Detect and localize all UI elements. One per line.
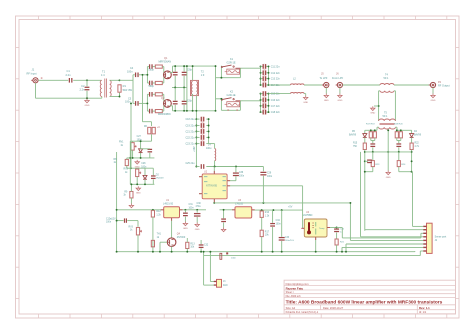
label P1 bbox=[27, 68, 43, 79]
svg-text:1:9: 1:9 bbox=[201, 74, 205, 77]
wire C35 stub bbox=[336, 227, 338, 230]
diode D1 bbox=[139, 149, 143, 153]
label R17 R18 bbox=[366, 124, 375, 126]
wire T4 to RF out bbox=[394, 84, 430, 86]
ground RF out bbox=[431, 94, 436, 102]
junction u3 rail b bbox=[281, 209, 283, 211]
wire ToLPF gnd stub bbox=[325, 88, 327, 94]
label R15 bbox=[353, 143, 358, 148]
junction C13 right bbox=[268, 78, 270, 80]
svg-text:From LPF: From LPF bbox=[332, 77, 344, 80]
junction C31 top bbox=[184, 209, 186, 211]
junction cell1 a bbox=[132, 157, 134, 159]
label C13 bbox=[271, 78, 281, 81]
label C1 bbox=[66, 69, 72, 77]
wire fb mid rail bbox=[172, 87, 187, 89]
label R24 bbox=[401, 164, 406, 166]
wire to C2 bbox=[86, 80, 88, 86]
wire L4 down bbox=[214, 161, 216, 167]
junction fb mid a bbox=[174, 87, 176, 89]
capacitor C13 bbox=[263, 76, 267, 81]
wire sense pin5 bbox=[350, 203, 423, 241]
svg-text:GND: GND bbox=[183, 228, 188, 230]
transformer T1 secondary coil bbox=[110, 80, 112, 96]
junction fb top a bbox=[174, 65, 176, 67]
wire to C4 bbox=[133, 74, 135, 76]
junction U4 out bbox=[336, 227, 338, 229]
wire C18 stub bbox=[261, 111, 269, 113]
capacitor C25 bbox=[201, 164, 205, 169]
svg-text:100n: 100n bbox=[189, 207, 195, 209]
label To LPF bbox=[320, 72, 328, 80]
capacitor C8 bbox=[149, 92, 153, 97]
connector P1 RF Input bbox=[31, 78, 38, 83]
junction K2 left bbox=[220, 98, 222, 100]
label Q2 bbox=[158, 97, 171, 116]
capacitor C37 bbox=[226, 252, 228, 254]
capacitor C18 bbox=[263, 110, 267, 115]
junction 12v u1 bbox=[116, 209, 118, 211]
svg-text:R15: R15 bbox=[353, 143, 358, 145]
thermometer icon U4 bbox=[307, 222, 314, 234]
wire R16-R17 bbox=[261, 217, 263, 230]
ground C31 bbox=[183, 222, 188, 230]
label K1 bbox=[227, 58, 236, 64]
junction C30 top bbox=[196, 209, 198, 211]
label C12 bbox=[271, 72, 281, 75]
svg-text:100n: 100n bbox=[127, 70, 133, 73]
junction fan1 bbox=[209, 251, 211, 253]
label C12a bbox=[106, 218, 112, 223]
capacitor C22 bbox=[201, 135, 205, 140]
capacitor C35 bbox=[334, 228, 339, 232]
wire C18b stub bbox=[196, 118, 208, 120]
title block sheet bbox=[286, 291, 295, 294]
wire sense pin7 bbox=[342, 247, 423, 251]
junction fb top b bbox=[183, 65, 185, 67]
svg-text:L4931-50: L4931-50 bbox=[163, 203, 174, 206]
diode D2 bbox=[143, 175, 147, 179]
junction bottom rail bbox=[272, 251, 274, 253]
svg-text:2.2n: 2.2n bbox=[66, 73, 72, 77]
label R1 bbox=[123, 84, 133, 92]
svg-text:C22 22u: C22 22u bbox=[185, 136, 195, 139]
junction R19 top bbox=[396, 129, 398, 131]
wire U3 out rail bbox=[252, 209, 303, 211]
wire sense pin8 long bbox=[204, 251, 424, 256]
label Q3 bbox=[177, 232, 186, 238]
svg-text:Id: 1/1: Id: 1/1 bbox=[419, 310, 427, 314]
svg-text:RV2: RV2 bbox=[124, 169, 129, 171]
label R19 R20 bbox=[394, 124, 403, 126]
wire gnd tap bbox=[374, 105, 379, 107]
junction U2 gnd bbox=[213, 202, 215, 204]
label C5 bbox=[125, 97, 132, 103]
wire drain2 rail bbox=[170, 106, 216, 111]
ground L3 bbox=[303, 96, 308, 104]
junction r9 top bbox=[130, 183, 132, 185]
svg-text:C36: C36 bbox=[239, 172, 244, 174]
wire C34a top bbox=[272, 210, 274, 223]
junction C25 left bbox=[195, 166, 197, 168]
title block box bbox=[284, 280, 455, 314]
junction bottom rail bbox=[336, 251, 338, 253]
junction K1 left bbox=[220, 77, 222, 79]
wire R24 top bbox=[398, 152, 400, 160]
diode D4 BAV99 bbox=[410, 134, 414, 138]
label R17b bbox=[265, 231, 270, 236]
junction C16 right bbox=[268, 99, 270, 101]
wire R8 bottom bbox=[126, 166, 128, 169]
capacitor C7 bbox=[149, 81, 153, 86]
resistor R15 bbox=[363, 143, 366, 150]
svg-text:R17 R18: R17 R18 bbox=[366, 124, 375, 126]
wire gate1 left rail bbox=[146, 67, 148, 83]
wire sense pin2 REF bbox=[365, 229, 423, 231]
wire J1 to C1 bbox=[38, 79, 68, 81]
svg-text:Title: A600 Broadband 600W lin: Title: A600 Broadband 600W linear amplif… bbox=[286, 300, 443, 306]
transformer T2 winding A bbox=[191, 82, 192, 95]
wire C33 top bbox=[281, 210, 283, 237]
wire R12 down bbox=[152, 217, 154, 252]
label C16 bbox=[271, 99, 281, 102]
label R22 bbox=[415, 143, 420, 148]
label RV3 bbox=[129, 226, 134, 231]
svg-text:100n: 100n bbox=[267, 176, 273, 178]
junction drain link bottom bbox=[186, 110, 188, 112]
wire R17R18 join bbox=[371, 138, 375, 141]
svg-text:R19 R20: R19 R20 bbox=[394, 124, 403, 126]
junction c25b bottom bbox=[398, 151, 400, 153]
wire R16 stub bbox=[261, 209, 263, 212]
capacitor C13a bbox=[173, 72, 178, 76]
wire gate2 top branch bbox=[147, 93, 149, 95]
svg-text:C16 22n: C16 22n bbox=[271, 99, 281, 102]
wire C8 to R4 bbox=[153, 93, 156, 95]
wire fb ladder1b bbox=[174, 76, 176, 88]
svg-text:MRF300AN: MRF300AN bbox=[159, 61, 172, 64]
label C34a bbox=[276, 220, 282, 225]
wire fan pin1 bbox=[210, 252, 215, 282]
junction d1 top bbox=[140, 140, 142, 142]
wire bias feed 1 bbox=[143, 75, 152, 126]
wire R17 top bbox=[370, 130, 372, 131]
wire C25b down bbox=[398, 147, 400, 152]
wire fb ladder1d bbox=[174, 105, 176, 111]
svg-text:RF Input: RF Input bbox=[27, 71, 37, 75]
svg-text:100n: 100n bbox=[106, 222, 112, 224]
connector J2 pins bbox=[423, 226, 426, 252]
capacitor C18c bbox=[151, 175, 156, 179]
wire ref join bottom bbox=[365, 171, 373, 173]
resistor R3 bbox=[155, 81, 162, 84]
svg-text:ATTINY85: ATTINY85 bbox=[206, 185, 218, 188]
label C32 bbox=[204, 244, 209, 246]
wire c17b bottom bbox=[149, 153, 151, 158]
svg-text:C31: C31 bbox=[189, 204, 194, 206]
wire gate2 low branch bbox=[147, 110, 149, 112]
label T2 bbox=[201, 71, 205, 77]
junction bias tap1 bbox=[142, 74, 144, 76]
junction bottom rail bbox=[281, 251, 283, 253]
svg-text:C29: C29 bbox=[267, 173, 272, 175]
wire rail end hook bbox=[414, 250, 416, 253]
svg-text:RV1: RV1 bbox=[119, 142, 124, 144]
label R23 bbox=[375, 164, 380, 166]
resistor R1 bbox=[118, 85, 121, 92]
transformer T2 box bbox=[191, 80, 199, 95]
wire +48V rail down bbox=[195, 96, 197, 167]
wire R13 bottom bbox=[186, 249, 188, 252]
resistor R16 bbox=[260, 211, 263, 217]
wire D4 to R22 bbox=[411, 138, 413, 143]
label U3 bbox=[235, 199, 244, 206]
wire T1 sec top bbox=[110, 79, 120, 81]
wire fb ladder1a bbox=[174, 66, 176, 72]
wire C12 stub bbox=[261, 72, 269, 74]
junction fb bot a bbox=[174, 110, 176, 112]
svg-text:100u: 100u bbox=[206, 147, 212, 150]
transformer T4 secondary bbox=[380, 91, 394, 93]
wire C33a stub bbox=[223, 210, 225, 219]
wire bank2 right rail bbox=[268, 94, 270, 113]
wire R18 top bbox=[374, 130, 376, 131]
title block size row bbox=[286, 306, 431, 310]
svg-text:C30: C30 bbox=[197, 203, 202, 205]
capacitor C26 bbox=[367, 159, 372, 163]
capacitor C17 bbox=[263, 104, 267, 109]
wire C11 stub bbox=[261, 65, 269, 67]
wire Q3 source down bbox=[171, 247, 173, 252]
label C30 bbox=[196, 203, 202, 208]
junction C11 left bbox=[260, 65, 262, 67]
svg-text:C19 22u: C19 22u bbox=[185, 125, 195, 128]
svg-text:220p: 220p bbox=[187, 70, 193, 72]
wire c18c top bbox=[152, 168, 154, 175]
capacitor C2 bbox=[85, 87, 90, 91]
capacitor C13b bbox=[182, 72, 187, 76]
wire relay K1 routing bbox=[221, 66, 243, 78]
U4 internal pin marks bbox=[314, 222, 317, 235]
svg-text:100n: 100n bbox=[276, 223, 282, 225]
wire RV1 stub bbox=[132, 141, 134, 142]
svg-text:470u: 470u bbox=[196, 206, 202, 208]
wire REF line down bbox=[364, 150, 366, 231]
svg-text:R16: R16 bbox=[265, 212, 270, 214]
wire U2 left pin2 bbox=[199, 193, 202, 195]
capacitor C11 bbox=[263, 64, 267, 69]
wire R24 bottom bbox=[398, 167, 400, 172]
wire gate1 right rail bbox=[163, 67, 165, 83]
wire bank2 left rail bbox=[260, 94, 262, 113]
title block url bbox=[286, 282, 310, 286]
junction ref bottom bbox=[364, 171, 366, 173]
inductor L2 bbox=[291, 84, 305, 85]
wire R8 top bbox=[126, 158, 128, 160]
wire C29 top bbox=[262, 167, 264, 172]
wire T4s right down bbox=[394, 91, 395, 121]
label C29 bbox=[267, 173, 273, 178]
ground T4 secondary bbox=[370, 106, 375, 114]
wire bias cell1 bottom bbox=[127, 157, 155, 159]
junction fwd2 bbox=[411, 160, 413, 162]
label T1 bbox=[101, 69, 106, 77]
svg-text:G2R-1E: G2R-1E bbox=[227, 94, 236, 97]
svg-text:Size: A4: Size: A4 bbox=[286, 306, 296, 310]
svg-text:Razvan Fatu: Razvan Fatu bbox=[286, 286, 304, 290]
wire U4 to sense3 bbox=[337, 228, 343, 238]
junction bottom rail bbox=[315, 251, 317, 253]
label 560p lower bbox=[149, 85, 155, 88]
connector J2 sense port bbox=[427, 223, 433, 253]
wire Q3 gate bbox=[160, 242, 167, 252]
junction center 152 bbox=[387, 151, 389, 153]
wire L3 to gnd bbox=[304, 94, 306, 96]
wire bank2 to L3 bbox=[269, 93, 291, 95]
wire C5 to gate2 node bbox=[139, 102, 148, 104]
junction supply tap bbox=[195, 110, 197, 112]
junction col48 right bbox=[208, 130, 210, 132]
junction C15 left bbox=[260, 93, 262, 95]
wire R8 to cell2 bbox=[127, 167, 131, 169]
junction u3 rail a bbox=[272, 209, 274, 211]
wire cell2 top bbox=[131, 168, 137, 169]
junction bottom rail bbox=[261, 251, 263, 253]
junction col48 C23 bbox=[195, 143, 197, 145]
wire bias feed 2 bbox=[130, 103, 132, 168]
wire fan pin2 bbox=[204, 252, 216, 285]
label R13 bbox=[190, 243, 195, 248]
junction bottom rail bbox=[171, 251, 173, 253]
capacitor C18b bbox=[201, 117, 205, 122]
resistor R22 bbox=[410, 143, 413, 150]
label R21 bbox=[340, 228, 345, 243]
svg-text:1N4148: 1N4148 bbox=[156, 178, 164, 180]
wire d1 bottom bbox=[140, 153, 142, 158]
IC pin stubs bbox=[161, 171, 330, 240]
svg-text:Date: 2018-10-27: Date: 2018-10-27 bbox=[323, 306, 344, 310]
wire gate split vertical bbox=[132, 75, 134, 104]
svg-text:R22: R22 bbox=[415, 143, 420, 145]
junction col48 C18b bbox=[195, 118, 197, 120]
resistor R20 bbox=[399, 132, 402, 138]
transformer T2 winding B bbox=[196, 82, 197, 95]
wire R9 top bbox=[130, 184, 132, 191]
wire C30 down bbox=[196, 217, 198, 223]
svg-text:100n/1kV: 100n/1kV bbox=[285, 240, 295, 242]
svg-text:560p: 560p bbox=[149, 85, 155, 88]
resistor R18 bbox=[373, 132, 376, 138]
svg-text:C15 22n: C15 22n bbox=[271, 93, 281, 96]
svg-text:https://qrpblog.com: https://qrpblog.com bbox=[286, 282, 310, 286]
resistor R23 bbox=[371, 161, 374, 167]
wire C4 to gate1 node bbox=[139, 74, 148, 76]
svg-text:GND: GND bbox=[431, 100, 436, 102]
wire to K2 bbox=[216, 98, 222, 100]
wire FromLPF to T4 bbox=[343, 84, 381, 86]
label C2 bbox=[79, 84, 85, 92]
title block id row bbox=[286, 310, 427, 314]
capacitor C30 bbox=[194, 213, 201, 217]
junction fb bot b bbox=[183, 110, 185, 112]
relay K2 coil pin numbers bbox=[227, 109, 238, 112]
transistor Q3 2N7000 bbox=[167, 238, 176, 247]
resistor R19 bbox=[395, 132, 398, 138]
svg-text:LM75BD: LM75BD bbox=[303, 214, 313, 217]
junction gate1 bbox=[146, 74, 148, 76]
wire K1 to cap bank1 bbox=[243, 67, 261, 69]
svg-text:TH1: TH1 bbox=[157, 234, 162, 236]
junction R1 bottom bbox=[119, 96, 121, 98]
wire U2 left pin1 bbox=[199, 176, 202, 178]
junction cell2 b bbox=[144, 183, 146, 185]
capacitor C32 bbox=[199, 244, 204, 248]
transistor Q1 MRF300AN bbox=[164, 71, 172, 79]
capacitor C4 bbox=[135, 73, 139, 78]
label C37 bbox=[231, 257, 237, 259]
inductor L4 bbox=[215, 149, 216, 161]
svg-text:GND: GND bbox=[337, 100, 342, 102]
capacitor C21 bbox=[201, 129, 205, 134]
capacitor C17b bbox=[148, 149, 153, 153]
wire C14 stub bbox=[261, 84, 269, 86]
svg-text:Rev: 1.1: Rev: 1.1 bbox=[419, 306, 430, 310]
wire U1 out bbox=[180, 209, 207, 211]
trimmer RV1 bbox=[131, 143, 137, 151]
svg-text:+C: +C bbox=[157, 127, 160, 129]
label C18 bbox=[271, 111, 281, 114]
ground C33a bbox=[221, 228, 225, 232]
label R8 bbox=[114, 159, 118, 164]
svg-text:Sheet: /: Sheet: / bbox=[286, 291, 295, 294]
svg-text:C27: C27 bbox=[137, 136, 142, 138]
wire C30 stub bbox=[196, 210, 198, 213]
junction ref1 bbox=[364, 151, 366, 153]
junction R17 top bbox=[370, 129, 372, 131]
wire to C5 bbox=[133, 102, 135, 104]
label From LPF bbox=[332, 72, 344, 80]
label L2 bbox=[293, 77, 296, 80]
capacitor C16b bbox=[152, 127, 155, 134]
svg-text:GND: GND bbox=[303, 102, 308, 104]
wire gate1 low branch bbox=[147, 82, 149, 84]
transistor Q2 MRF300BN bbox=[164, 100, 172, 108]
junction C12 right bbox=[268, 72, 270, 74]
wire C15 stub bbox=[261, 93, 269, 95]
junction drain link top bbox=[186, 65, 188, 67]
resistor R21 bbox=[335, 239, 338, 245]
junction col48 C22 bbox=[195, 136, 197, 138]
label C21 bbox=[185, 130, 195, 133]
junction rail203 a bbox=[262, 202, 264, 204]
transformer T5 core bbox=[380, 123, 395, 124]
wire R9 bottom bbox=[130, 198, 132, 204]
wire T1 sec bottom bbox=[110, 93, 120, 97]
wire R17 down bbox=[261, 237, 263, 252]
wire C7 to R3 bbox=[153, 82, 156, 84]
svg-text:100n: 100n bbox=[137, 139, 143, 141]
resistor R13 bbox=[186, 242, 189, 248]
resistor R2 bbox=[155, 65, 162, 68]
label R6 bbox=[144, 126, 160, 129]
label RV2 bbox=[124, 169, 129, 174]
junction col48 C19 bbox=[195, 125, 197, 127]
wire sense pin3 temp bbox=[342, 233, 423, 238]
wire D5 to R15 bbox=[364, 138, 366, 143]
junction col48 C21 bbox=[195, 130, 197, 132]
relay K2 contact bbox=[221, 98, 240, 101]
wire C31 stub bbox=[184, 210, 186, 213]
